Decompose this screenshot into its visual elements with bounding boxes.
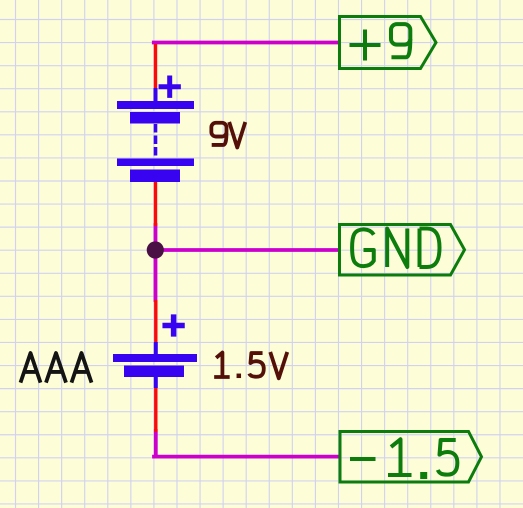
global label -1.5 flag outline [340, 432, 482, 483]
battery BT1 plus mark [159, 76, 181, 98]
battery BT1 plate 2 (short) [130, 112, 180, 124]
pin - of BT1 [154, 181, 157, 226]
battery BT1 dashed middle line [154, 124, 158, 159]
battery BT2 plate 2 (short, - ) [124, 366, 184, 378]
pin + of BT1 [154, 44, 157, 91]
wire bottom horizontal (-1.5 net) [154, 455, 339, 459]
label AAA (BT2 reference) [21, 353, 92, 383]
global label +9 text [350, 24, 411, 60]
global label GND text [352, 229, 439, 268]
label 9V (BT1 value) [211, 122, 245, 148]
label 1.5V (BT2 value) [214, 352, 287, 378]
battery BT1 plate 3 (long) [117, 159, 194, 167]
battery BT2 plus mark [162, 314, 184, 336]
battery BT1 plate 1 (long, + ) [117, 101, 194, 109]
junction dot at GND node [147, 241, 164, 258]
wire top horizontal (+9 net) [154, 41, 339, 45]
battery BT1 top lead stub [154, 88, 158, 102]
battery BT2 plate 1 (long, + ) [113, 354, 197, 362]
wire vertical between BT1 and BT2 [154, 225, 158, 300]
global label +9 flag outline [340, 17, 437, 69]
wire bottom vertical [154, 431, 158, 457]
wire GND horizontal [156, 248, 340, 252]
global label -1.5 text [350, 439, 457, 479]
battery BT2 bottom lead stub [154, 377, 158, 388]
pin - of BT2 [154, 388, 157, 432]
battery BT1 plate 4 (short, - ) [130, 170, 180, 183]
global label GND flag outline [340, 225, 465, 276]
pin + of BT2 [154, 300, 157, 343]
battery BT2 top lead stub [154, 342, 158, 355]
